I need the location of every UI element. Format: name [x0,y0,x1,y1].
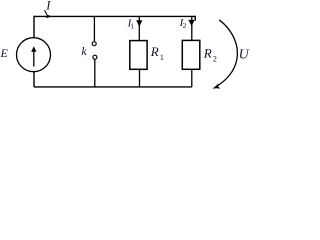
wire: left branch lower segment [33,71,35,87]
voltage U reference arc [216,20,238,87]
wire: top wire from top-left corner to top-right corner [34,15,195,17]
wire: switch branch upper segment [93,16,95,41]
wire: R2 branch lower segment [191,69,193,87]
resistor R2 box [182,40,200,69]
arrow head of current I1 [136,20,142,27]
switch k upper terminal circle [92,42,96,46]
svg-text:U: U [239,47,250,62]
arrow head of current I2 [188,20,194,26]
wire: bottom wire [34,86,192,88]
arrow head of voltage U arc [213,83,221,88]
current source arrow (inside circle, pointing up) [33,51,35,67]
svg-text:1: 1 [160,53,164,62]
svg-text:E: E [0,46,9,60]
svg-text:I: I [45,0,51,13]
wire: R1 branch lower segment [139,69,141,87]
wire: R2 branch upper segment with I2 shaft [191,17,193,40]
svg-text:R: R [150,44,159,59]
svg-text:2: 2 [183,21,187,30]
wire: top-right corner stub [194,16,196,21]
wire: left branch upper segment [33,16,35,39]
switch k lower terminal circle [93,55,97,59]
svg-text:1: 1 [130,21,134,30]
wire: switch branch lower segment [94,59,96,87]
svg-text:k: k [81,44,87,58]
svg-text:R: R [203,45,212,60]
current source E circle [17,38,51,72]
wire: R1 branch upper segment with I1 shaft [138,16,140,40]
arrow head of current I on top wire [46,14,52,18]
svg-text:2: 2 [213,54,217,63]
resistor R1 box [130,41,147,70]
